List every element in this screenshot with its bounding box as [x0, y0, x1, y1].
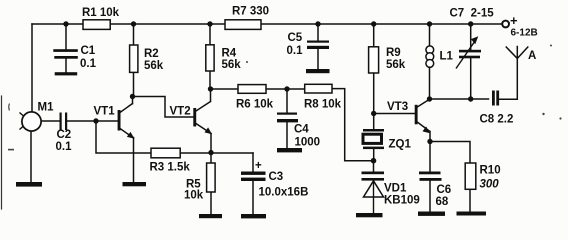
svg-text:R10: R10 — [480, 165, 501, 177]
svg-text:A: A — [528, 50, 536, 62]
svg-text:L1: L1 — [440, 51, 454, 63]
svg-text:+: + — [510, 13, 518, 28]
svg-text:VT1: VT1 — [94, 106, 116, 118]
svg-text:C3: C3 — [269, 171, 284, 183]
svg-text:+: + — [255, 160, 262, 172]
svg-text:56k: 56k — [144, 60, 164, 72]
svg-text:C1: C1 — [81, 45, 96, 57]
svg-text:10.0x16B: 10.0x16B — [259, 187, 309, 199]
svg-text:C6: C6 — [437, 184, 452, 196]
svg-text:56k: 56k — [386, 59, 406, 71]
svg-text:ZQ1: ZQ1 — [389, 139, 412, 151]
svg-text:0.1: 0.1 — [80, 58, 97, 70]
svg-text:C2: C2 — [57, 129, 72, 141]
svg-text:300: 300 — [480, 179, 500, 191]
svg-text:C7 2-15: C7 2-15 — [450, 8, 495, 20]
svg-text:0.1: 0.1 — [287, 45, 304, 57]
svg-text:M1: M1 — [38, 102, 55, 114]
svg-text:KB109: KB109 — [384, 195, 420, 207]
svg-text:R1 10k: R1 10k — [82, 7, 120, 19]
svg-text:R9: R9 — [386, 47, 401, 59]
svg-text:R8 10k: R8 10k — [304, 99, 342, 111]
svg-text:68: 68 — [436, 196, 449, 208]
svg-text:VT3: VT3 — [387, 101, 408, 113]
svg-text:R6 10k: R6 10k — [236, 99, 274, 111]
svg-text:R2: R2 — [144, 48, 159, 60]
svg-text:1000: 1000 — [295, 137, 321, 149]
svg-text:VT2: VT2 — [170, 106, 191, 118]
svg-text:0.1: 0.1 — [56, 141, 73, 153]
svg-text:6-12B: 6-12B — [511, 28, 538, 39]
svg-text:R7 330: R7 330 — [232, 6, 269, 18]
svg-text:C8 2.2: C8 2.2 — [480, 114, 514, 126]
svg-text:56k: 56k — [222, 59, 242, 71]
svg-text:C5: C5 — [288, 32, 303, 44]
svg-text:10k: 10k — [184, 190, 204, 202]
svg-text:R4: R4 — [222, 48, 237, 60]
svg-text:VD1: VD1 — [384, 183, 407, 195]
svg-text:C4: C4 — [294, 124, 309, 136]
svg-text:R3 1.5k: R3 1.5k — [150, 162, 191, 174]
